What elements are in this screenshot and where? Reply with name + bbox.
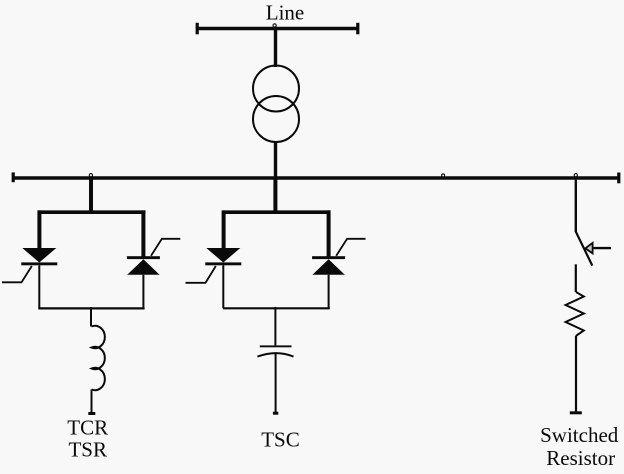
wire: main bus down to TSC bridge — [273, 178, 277, 214]
wire: capacitor bottom lead — [275, 352, 277, 413]
switch S1 blade — [575, 231, 592, 266]
wire: TSC bridge left leg — [222, 210, 226, 248]
wire: resistor bottom lead — [575, 336, 577, 412]
thyristor TCR left (cathode down) — [2, 248, 57, 282]
inductor L1 (TCR reactor) — [92, 326, 105, 390]
junction on main busbar at switched-resistor branch — [574, 174, 577, 177]
junction on main busbar (middle tap) — [442, 174, 445, 177]
terminal tick (TSC) — [273, 412, 278, 415]
TSC bridge bottom wire — [223, 307, 330, 309]
TCR bridge top wire — [38, 210, 146, 214]
transformer T1 — [253, 66, 299, 143]
wire: TCR right thyristor anode lead — [142, 275, 144, 309]
wire: TSC bridge right leg — [327, 210, 331, 257]
svg-text:Resistor: Resistor — [546, 446, 615, 470]
TSC bridge top wire — [223, 210, 331, 214]
TCR bridge bottom wire — [38, 307, 144, 309]
wire: TCR left thyristor cathode lead — [38, 265, 40, 308]
wire: main bus down to TCR bridge — [89, 178, 93, 214]
junction on main busbar at TCR branch — [89, 174, 92, 177]
switch actuator arrow — [585, 243, 611, 254]
junction: TCR bottom tap — [90, 307, 93, 310]
thyristor TCR right (cathode up) — [127, 239, 180, 275]
thyristor TSC left (cathode down) — [186, 248, 242, 283]
wire: switch lower contact — [575, 264, 577, 292]
svg-text:Switched: Switched — [540, 423, 619, 447]
main busbar — [13, 172, 619, 183]
top busbar — [197, 23, 358, 35]
resistor R1 (switched resistor) — [566, 292, 584, 336]
wire: top bus to transformer — [274, 29, 277, 68]
wire: main bus down to switch — [575, 178, 577, 232]
wire: TCR bridge right leg — [141, 210, 145, 257]
wire: TCR bridge left leg — [37, 210, 41, 248]
wire: transformer to main busbar — [274, 141, 277, 178]
svg-text:TSC: TSC — [261, 428, 300, 452]
wire: TSC bottom to capacitor — [274, 308, 276, 345]
junction: TSC bottom tap — [274, 307, 277, 310]
wire: TCR bottom to reactor — [90, 308, 92, 326]
junction on top busbar — [273, 24, 276, 27]
thyristor TSC right (cathode up) — [312, 239, 365, 275]
wire: TSC right thyristor anode lead — [328, 275, 330, 309]
wire: reactor bottom lead — [91, 390, 93, 414]
svg-text:TSR: TSR — [68, 438, 107, 462]
wire: TSC left thyristor cathode lead — [222, 265, 224, 308]
terminal tick (TCR) — [88, 412, 95, 415]
svg-text:Line: Line — [266, 1, 304, 25]
svg-text:TCR: TCR — [67, 416, 108, 440]
capacitor C1 (TSC capacitor) — [257, 345, 293, 356]
terminal tick (switched resistor) — [570, 411, 582, 414]
